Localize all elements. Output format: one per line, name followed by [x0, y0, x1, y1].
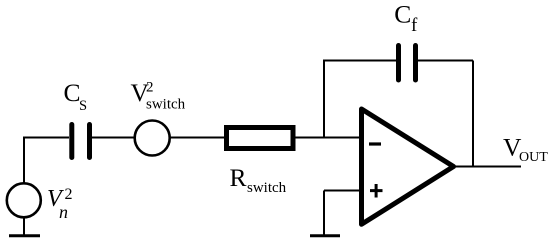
- ground opamp bar: [310, 234, 340, 237]
- wire output: [452, 166, 521, 168]
- capacitor CS right plate: [87, 125, 92, 158]
- svg-text:2: 2: [65, 186, 73, 203]
- wire main left horizontal to CS: [23, 137, 69, 139]
- capacitor Cf left plate: [396, 46, 401, 81]
- capacitor Cf right plate: [413, 46, 418, 81]
- wire plus input ground vertical: [323, 191, 325, 236]
- noise source Vswitch circle: [135, 121, 170, 156]
- wire Vswitch to Rswitch: [170, 137, 227, 139]
- svg-text:S: S: [79, 98, 87, 114]
- op-amp plus sign: [370, 184, 383, 198]
- svg-text:switch: switch: [146, 97, 186, 113]
- svg-text:R: R: [230, 163, 247, 192]
- voltage source Vn2 circle: [7, 183, 41, 217]
- svg-text:C: C: [394, 0, 411, 29]
- wire Cf to right vertical: [418, 60, 473, 62]
- capacitor CS left plate: [69, 125, 74, 158]
- wire plus input horizontal: [324, 190, 361, 192]
- svg-text:C: C: [64, 78, 81, 107]
- svg-text:switch: switch: [247, 180, 287, 196]
- wire input left vertical: [23, 139, 25, 184]
- op-amp triangle: [362, 109, 454, 224]
- svg-text:n: n: [59, 202, 68, 222]
- wire Rswitch to opamp minus input: [293, 137, 361, 139]
- svg-text:2: 2: [146, 80, 154, 96]
- wire feedback top horizontal to Cf: [323, 60, 396, 62]
- svg-text:f: f: [411, 15, 418, 36]
- resistor Rswitch: [227, 128, 294, 149]
- svg-text:OUT: OUT: [519, 150, 548, 165]
- wire feedback left vertical: [323, 61, 325, 138]
- wire feedback right vertical: [472, 61, 474, 167]
- op-amp minus sign: [369, 142, 381, 145]
- ground left bar: [9, 234, 40, 237]
- wire CS to Vswitch: [92, 137, 134, 139]
- wire source to ground: [23, 217, 25, 235]
